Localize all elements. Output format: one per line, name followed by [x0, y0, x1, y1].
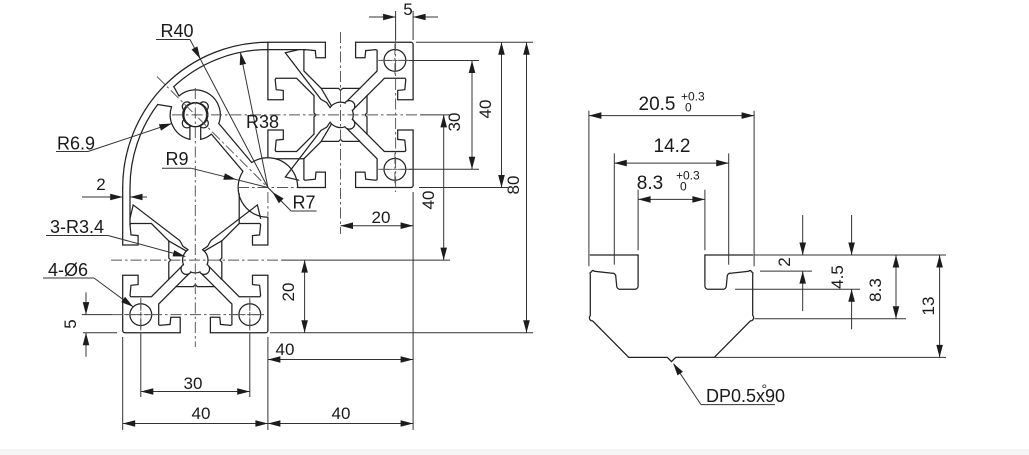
- bottom face right seg: [210, 332, 265, 334]
- dim20h arrow right: [401, 222, 414, 229]
- dim40r arrow down: [498, 175, 505, 188]
- dim142 ext left: [613, 153, 615, 264]
- x40top face lower seg: [267, 130, 269, 158]
- detail ext level83: [755, 318, 907, 320]
- left face lower seg: [122, 275, 124, 330]
- dim20v arrow down: [301, 320, 308, 333]
- svg-text:20.5: 20.5: [639, 94, 676, 115]
- dim83d ext right: [704, 190, 706, 251]
- svg-text:20: 20: [279, 283, 298, 302]
- boss B2 channel stub 2: [354, 121, 367, 134]
- dim40b line: [123, 423, 268, 425]
- dim142 arrow right: [716, 160, 729, 167]
- dim20v line: [304, 260, 306, 333]
- detail ext level2: [760, 270, 812, 272]
- dim30r arrow up: [469, 61, 476, 74]
- detail ext level0: [755, 254, 947, 256]
- svg-text:30: 30: [445, 113, 464, 132]
- hole H1 crosshair v: [140, 298, 142, 331]
- ext hole H1 vertical down: [140, 334, 142, 397]
- dim2d tail up: [802, 215, 804, 255]
- dim2d tail down: [802, 271, 804, 311]
- dim45d tail up: [851, 215, 853, 255]
- slot S3 right-face lower floor + V-notch: [220, 241, 222, 279]
- 4-dia6 text shelf: [43, 277, 94, 279]
- svg-text:0: 0: [685, 101, 692, 115]
- R40 arrowhead: [192, 46, 201, 59]
- boss B1 channel horn right: [203, 205, 261, 250]
- svg-text:5: 5: [403, 0, 412, 19]
- top face right seg: [356, 41, 411, 43]
- svg-text:40: 40: [276, 340, 295, 359]
- dim45d arrow bot: [848, 289, 855, 302]
- dim40b ext left: [122, 337, 124, 430]
- boss B1 lobe 315: [200, 265, 210, 275]
- dim20h arrow left: [341, 222, 354, 229]
- svg-text:DP0.5x90: DP0.5x90: [706, 386, 785, 406]
- hole H2 crosshair h: [233, 314, 266, 316]
- DP underline: [701, 404, 775, 406]
- svg-text:R7: R7: [292, 193, 315, 213]
- dim142 arrow left: [614, 160, 627, 167]
- dim5bl tail down: [85, 333, 87, 357]
- R38 inner wall arc lower: [130, 105, 158, 188]
- dim40i line: [443, 115, 445, 260]
- centerline holes right vertical ext up: [395, 11, 397, 40]
- hole H2 circle: [239, 304, 261, 326]
- dim142 ext right: [728, 153, 730, 264]
- slot S6 y40-face comb a: [304, 141, 326, 187]
- 4-dia6 arrowhead: [121, 297, 133, 307]
- dim40m line: [268, 359, 413, 361]
- dim80 line: [526, 42, 528, 332]
- x40top face upper seg: [267, 42, 269, 100]
- dim45d arrow top: [848, 243, 855, 256]
- boss B2 lobe 225: [345, 101, 355, 111]
- clover B3 thread arc 2a: [183, 103, 207, 127]
- boss B2 channel horn left: [285, 50, 330, 108]
- boss B2 channel stub 3: [347, 129, 360, 142]
- boss B1 thread arc bottom: [191, 271, 201, 274]
- detail ext level13: [676, 356, 946, 358]
- top face left seg: [268, 41, 326, 43]
- boss B3 outer circle left: [170, 107, 190, 140]
- svg-text:8.3: 8.3: [866, 278, 885, 302]
- hole H3 crosshair v: [394, 153, 396, 186]
- boss B2 thread arc right: [330, 122, 345, 127]
- top inner wall: [268, 49, 305, 51]
- dim13 arrow bot: [936, 345, 943, 358]
- dim5bl tail up: [85, 292, 87, 314]
- dim5bl ext hole: [82, 314, 112, 316]
- hole H1 crosshair h: [124, 314, 157, 316]
- left inner wall upper: [129, 188, 131, 225]
- dim2d arrow top: [799, 243, 806, 256]
- dim205 line: [589, 115, 754, 117]
- svg-text:R9: R9: [165, 149, 188, 169]
- dim40m arrow left: [268, 356, 281, 363]
- dim5top ext right: [412, 11, 414, 40]
- boss B1 channel stub 5: [204, 241, 221, 251]
- svg-text:13: 13: [919, 297, 938, 316]
- svg-text:2: 2: [775, 257, 794, 266]
- R6.9 text shelf: [56, 151, 88, 153]
- bottom face left seg: [125, 332, 180, 334]
- R38 radius line: [240, 52, 268, 187]
- R9 arrowhead: [223, 173, 236, 179]
- hole H3 circle: [384, 158, 406, 180]
- hole H4 crosshair v: [394, 44, 396, 77]
- slot S5 right-face upper comb a: [367, 130, 413, 152]
- centerline holes right vertical: [395, 40, 397, 192]
- notch web to S3 wall: [238, 194, 240, 224]
- slot S5 right-face upper comb b: [367, 78, 413, 100]
- dim40m arrow right: [401, 356, 414, 363]
- dim20v arrow up: [301, 260, 308, 273]
- svg-text:14.2: 14.2: [654, 136, 691, 157]
- boss B2 thread arc left: [330, 102, 345, 107]
- svg-text:0: 0: [680, 180, 687, 194]
- clover B3 lobe 0: [200, 102, 208, 110]
- dim2 arrow left: [110, 194, 123, 201]
- dim40b2 line: [268, 423, 413, 425]
- dim40r ext upper: [416, 41, 533, 43]
- DP leader: [674, 364, 701, 405]
- dim5top tail right: [413, 16, 438, 18]
- hole H1 circle: [130, 304, 152, 326]
- boss B3 outer circle main: [179, 90, 220, 124]
- boss B2 channel stub 1: [347, 88, 360, 101]
- dim5bl arrow top: [83, 302, 90, 315]
- clover B3 lobe 3: [200, 120, 208, 128]
- svg-text:°: °: [762, 381, 768, 397]
- hole H3 crosshair h: [378, 168, 411, 170]
- svg-text:30: 30: [184, 374, 203, 393]
- slot S6 y40-face floor + V-notch: [321, 139, 359, 141]
- svg-text:5: 5: [61, 319, 80, 328]
- boss B1 channel horn left: [130, 205, 188, 250]
- dim40m ext right: [412, 232, 414, 366]
- dim40b arrow right: [255, 420, 268, 427]
- dim13 arrow top: [936, 255, 943, 268]
- dim5top arrow left: [383, 14, 396, 21]
- clover B3 lobe 2: [182, 120, 190, 128]
- dim83r arrow bot: [893, 306, 900, 319]
- dim30r ext lower: [409, 168, 479, 170]
- dim2 tail left: [82, 196, 123, 198]
- svg-text:R6.9: R6.9: [57, 134, 95, 154]
- dim40b arrow left: [123, 420, 136, 427]
- slot S4 top-face floor + V-notch: [321, 88, 359, 90]
- boss B2 channel stub 5: [321, 124, 331, 141]
- right40 face lower seg: [267, 275, 269, 330]
- slot S3 right-face lower comb b: [222, 275, 268, 297]
- slot S3 right-face lower comb a: [222, 224, 268, 246]
- boss B2 channel stub 4: [321, 88, 331, 106]
- R6.9 leader: [88, 124, 172, 152]
- dim205 ext left: [588, 111, 590, 267]
- dim30b arrow left: [141, 388, 154, 395]
- svg-text:R40: R40: [160, 21, 193, 41]
- centerline bottom arm vertical: [194, 88, 196, 347]
- dim83d line: [638, 198, 705, 200]
- clover B3 thread arc 2b: [184, 103, 208, 127]
- slot S4 top-face comb b: [304, 42, 326, 88]
- centerline hole H1 vertical: [140, 300, 142, 334]
- boss B1 thread arc right: [203, 250, 208, 265]
- dim30b arrow right: [237, 388, 250, 395]
- slot S2 left-face comb b: [123, 224, 169, 246]
- centerline top arm horizontal ext: [420, 114, 450, 116]
- 3-R3.4 leader: [108, 236, 185, 257]
- clover B3 thread arc 1: [183, 110, 184, 120]
- slot S1 bottom-face floor + V-notch: [176, 285, 214, 287]
- R7 arrowhead: [272, 192, 283, 203]
- clover B3 channel stub: [200, 126, 202, 139]
- R40 text shelf: [156, 39, 190, 41]
- dim5top tail left: [369, 16, 396, 18]
- centerline hole H2 vertical: [249, 300, 251, 334]
- dim30r line: [471, 61, 473, 170]
- slot S2 left-face comb a: [123, 275, 169, 297]
- 3-R3.4 arrowhead: [173, 250, 186, 256]
- boss B2 lobe 315: [345, 119, 355, 129]
- svg-text:4.5: 4.5: [828, 265, 847, 289]
- B3 leg to notch a: [211, 134, 243, 171]
- hole H4 crosshair h: [378, 59, 411, 61]
- clover B3 thread arc 3: [206, 110, 207, 120]
- R40 outer corner arc: [123, 42, 268, 187]
- dim83d ext left: [637, 190, 639, 251]
- detail bottom face + V-notch: [629, 357, 714, 361]
- dim5bl arrow bottom: [83, 333, 90, 346]
- slot S7 x40-face upper comb a: [268, 130, 314, 152]
- centerline holes bottom horizontal: [112, 314, 264, 316]
- dim40r ext lower: [419, 187, 508, 189]
- y40 face left seg: [298, 187, 326, 189]
- hole H4 circle: [384, 50, 406, 72]
- dim40b ext mid: [267, 366, 269, 430]
- svg-text:8.3: 8.3: [637, 173, 663, 194]
- 4-dia6 leader: [94, 278, 133, 307]
- dim40r arrow up: [498, 42, 505, 55]
- boss B2 channel stub 0: [354, 96, 367, 109]
- B3 leg to notch b: [219, 124, 252, 163]
- 3-R3.4 text shelf: [46, 235, 108, 237]
- notch web to S6 wall: [276, 158, 304, 160]
- dim40m ext left: [267, 337, 269, 366]
- fillet corner 0 0: [123, 331, 125, 333]
- dim83d arrow left: [638, 196, 651, 203]
- fillet corner 80 40: [411, 185, 413, 187]
- slot S4 top-face comb a: [356, 42, 378, 88]
- svg-text:4-Ø6: 4-Ø6: [48, 260, 88, 280]
- y40 face right seg: [356, 187, 411, 189]
- boss B1 channel stub 0: [176, 274, 189, 287]
- dim83d arrow right: [692, 196, 705, 203]
- svg-text:2: 2: [96, 175, 105, 194]
- slot S1 bottom-face comb a: [159, 287, 181, 333]
- dim5bl ext bottom: [83, 332, 117, 334]
- dim30r arrow down: [469, 157, 476, 170]
- centerline top arm vertical: [340, 32, 342, 234]
- slot S6 y40-face comb b: [356, 141, 378, 187]
- dim2 tail right: [130, 196, 147, 198]
- dim40i arrow up: [440, 115, 447, 128]
- right80 face lower seg: [412, 130, 414, 185]
- dim5top arrow right: [413, 14, 426, 21]
- boss B2 thread arc bottom: [351, 110, 354, 120]
- dim205 arrow left: [589, 112, 602, 119]
- B3 bridge to R38 a: [174, 87, 179, 96]
- right40 face upper seg: [267, 217, 269, 245]
- detail ext level45: [735, 288, 860, 290]
- dim30r ext upper: [409, 60, 479, 62]
- ext hole H2 vertical down: [249, 334, 251, 397]
- slot S5 right-face upper floor + V-notch: [365, 96, 367, 134]
- clover B3 lobe 1: [182, 102, 190, 110]
- detail slot wall left: [589, 255, 638, 357]
- slot S7 x40-face upper comb b: [268, 78, 314, 100]
- R9 leader: [192, 168, 268, 187]
- dim83r arrow top: [893, 255, 900, 268]
- dim2d arrow bot: [799, 271, 806, 284]
- R38 inner wall arc upper: [174, 50, 268, 87]
- boss B1 channel stub 3: [209, 267, 222, 280]
- left face upper seg: [122, 188, 124, 246]
- R9 text shelf: [162, 167, 192, 169]
- hole H2 crosshair v: [249, 298, 251, 331]
- dim40i arrow down: [440, 248, 447, 261]
- R7 corner notch arc upper: [238, 171, 268, 217]
- slot S2 left-face floor + V-notch: [169, 241, 171, 279]
- R40 leader: [190, 40, 268, 188]
- DP arrowhead: [673, 363, 683, 375]
- B3 bridge to R38 b: [158, 105, 172, 107]
- dim40r line: [501, 42, 503, 187]
- fillet corner 80 80: [411, 42, 413, 44]
- slot S1 bottom-face comb b: [210, 287, 232, 333]
- dim40b2 ext right: [412, 366, 414, 430]
- svg-text:20: 20: [372, 208, 391, 227]
- dim2 arrow right: [130, 194, 143, 201]
- detail surface left: [590, 254, 638, 256]
- svg-text:40: 40: [419, 191, 438, 210]
- R7 leader: [268, 188, 291, 212]
- R7 corner notch arc lower: [252, 158, 298, 188]
- dim13 line: [939, 255, 941, 357]
- detail surface right: [705, 254, 753, 256]
- dim20h ext right: [412, 192, 414, 232]
- centerline hole H3 horizontal: [381, 168, 412, 170]
- faint bottom band: [0, 449, 1029, 455]
- dim80 arrow up: [523, 42, 530, 55]
- boss B3 outer circle bottom-right: [201, 134, 212, 139]
- svg-text:3-R3.4: 3-R3.4: [50, 217, 104, 237]
- dim30b line: [141, 391, 250, 393]
- boss B1 thread arc left: [183, 250, 188, 265]
- svg-text:40: 40: [192, 404, 211, 423]
- dim80 arrow down: [523, 320, 530, 333]
- R6.9 arrowhead: [159, 124, 172, 131]
- centerline top arm horizontal: [172, 114, 420, 116]
- dim83r line: [895, 255, 897, 319]
- dim80 ext bottom: [270, 332, 533, 334]
- R38 arrowhead: [240, 52, 246, 65]
- detail slot wall right: [705, 255, 754, 357]
- R7 text shelf: [291, 210, 317, 212]
- centerline corner diagonal: [157, 77, 275, 195]
- boss B1 channel stub 4: [169, 241, 187, 251]
- centerline corner vertical: [267, 192, 269, 216]
- svg-text:40: 40: [332, 404, 351, 423]
- centerline corner horizontal: [238, 187, 297, 189]
- dim40b2 arrow right: [401, 420, 414, 427]
- clover B3 thread arc 0: [191, 103, 201, 104]
- svg-text:R38: R38: [246, 112, 279, 132]
- svg-text:80: 80: [504, 176, 523, 195]
- dim45d tail down: [851, 289, 853, 329]
- centerline hole H4 horizontal: [381, 60, 412, 62]
- right80 face upper seg: [412, 45, 414, 100]
- dim142 line: [614, 162, 728, 164]
- svg-text:40: 40: [476, 100, 495, 119]
- clover B3 channel stub: [189, 126, 191, 139]
- dim205 arrow right: [742, 112, 755, 119]
- boss B2 channel horn right: [285, 122, 330, 180]
- dim40b2 arrow left: [268, 420, 281, 427]
- centerline bottom arm horizontal: [111, 259, 282, 261]
- centerline bottom arm horizontal ext: [282, 259, 450, 261]
- boss B1 channel stub 1: [169, 267, 182, 280]
- dim20h line: [341, 225, 414, 227]
- fillet corner 40 0: [266, 331, 268, 333]
- boss B1 lobe 225: [181, 265, 191, 275]
- slot S7 x40-face upper floor + V-notch: [314, 96, 316, 134]
- boss B1 channel stub 2: [202, 274, 215, 287]
- dim205 ext right: [753, 111, 755, 267]
